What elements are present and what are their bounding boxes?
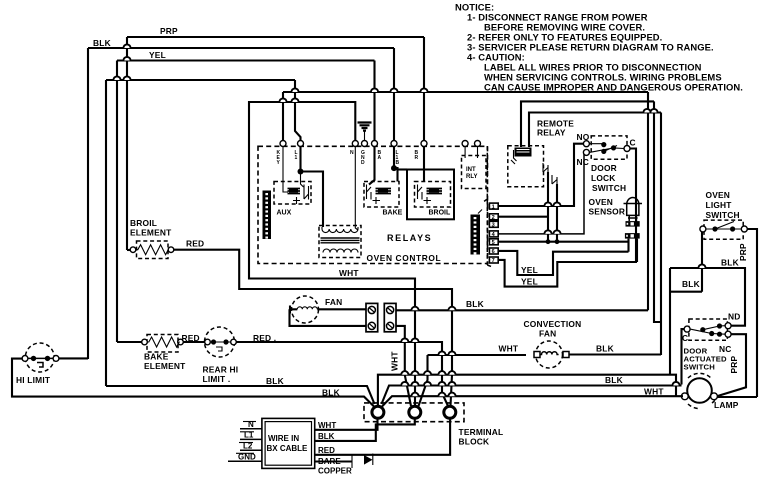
svg-text:WIRE IN: WIRE IN (268, 434, 299, 443)
wire pin6 YEL loop to sensor (498, 251, 628, 275)
svg-text:5: 5 (492, 240, 495, 246)
svg-text:WHT: WHT (644, 387, 664, 397)
svg-text:C: C (630, 138, 636, 148)
wire KEY into AUX relay (283, 146, 288, 192)
svg-text:WHT: WHT (499, 344, 519, 354)
wire N to transformer secondary (355, 147, 358, 231)
ground symbol (358, 123, 372, 141)
lamp (681, 373, 717, 408)
broil element resistor (130, 241, 174, 259)
svg-text:HI LIMIT: HI LIMIT (16, 375, 51, 385)
wire L1 to transformer primary (301, 146, 324, 227)
wire BLK top-left (88, 38, 394, 48)
wire fan WHT down to terminal 2 (396, 326, 411, 406)
wire door C to BLK line (682, 329, 685, 384)
svg-text:NC: NC (719, 344, 732, 354)
svg-text:WHT: WHT (339, 268, 359, 278)
wire PRP from light switch (747, 229, 757, 397)
wire PRP top (127, 26, 424, 37)
wire KEY down (282, 92, 284, 141)
relay REMOTE RELAY (508, 146, 557, 187)
svg-text:BAKE: BAKE (144, 352, 169, 362)
wire hi limit left to bottom WHT line (12, 359, 375, 407)
svg-text:BROIL: BROIL (429, 210, 452, 217)
svg-text:2: 2 (492, 215, 495, 221)
wire YEL corner to bake element (117, 341, 144, 343)
svg-text:BAKE: BAKE (383, 210, 403, 217)
svg-text:BLK: BLK (605, 375, 623, 385)
wire BR to BROIL relay (423, 146, 425, 182)
svg-text:YEL: YEL (521, 277, 538, 287)
node L1B junction (391, 165, 397, 171)
wire remote relay coil feed 2 (529, 113, 661, 148)
svg-text:CONVECTION: CONVECTION (524, 319, 582, 329)
svg-text:NO: NO (577, 132, 590, 142)
connector J2 right bar (471, 210, 483, 255)
wire BLK left vertical (87, 48, 89, 359)
terminal block post 3 (444, 406, 456, 418)
wire crossing hops (113, 44, 705, 396)
wire BA to bake relay switch (369, 147, 375, 185)
svg-text:WHT: WHT (390, 351, 400, 371)
svg-text:RED: RED (186, 239, 204, 249)
svg-text:RED: RED (318, 446, 335, 455)
wire WHT line continue to lamp (382, 396, 684, 407)
wire BARE COPPER ground lead (315, 454, 373, 476)
wire door lock C down (630, 149, 636, 263)
transformer T1 (319, 226, 361, 258)
node L1 junction (298, 169, 304, 175)
svg-text:6: 6 (492, 249, 495, 255)
svg-text:SWITCH: SWITCH (706, 210, 740, 220)
svg-text:COPPER: COPPER (318, 467, 352, 476)
svg-text:BLK: BLK (682, 279, 700, 289)
wire L1 input (240, 431, 262, 440)
svg-text:SWITCH: SWITCH (592, 183, 626, 193)
svg-text:YEL: YEL (521, 265, 538, 275)
svg-text:BLK: BLK (266, 376, 284, 386)
svg-text:ELEMENT: ELEMENT (144, 361, 186, 371)
wire BLK to door switch NO (670, 268, 745, 326)
svg-text:PRP: PRP (729, 355, 739, 373)
wire PRP to broil element (127, 249, 130, 251)
svg-text:7: 7 (492, 258, 495, 264)
svg-text:GND: GND (361, 150, 365, 166)
svg-text:AUX: AUX (277, 210, 292, 217)
wire BLK convection fan to 661 vertical (569, 353, 661, 355)
svg-text:RELAY: RELAY (537, 128, 566, 138)
wire KEY line right vertical to fan blk (647, 92, 649, 310)
svg-text:PRP: PRP (160, 26, 178, 36)
svg-text:OVEN CONTROL: OVEN CONTROL (367, 253, 442, 263)
svg-text:C: C (682, 333, 688, 343)
svg-text:BROIL: BROIL (130, 218, 157, 228)
wire RED rear hi limit to circle3 (236, 342, 448, 407)
rear hi limit switch (205, 327, 237, 357)
wire YEL top (117, 50, 375, 61)
svg-text:BLK: BLK (596, 344, 614, 354)
svg-text:BLK: BLK (93, 38, 111, 48)
terminal block dashed box (364, 403, 464, 422)
wire PRP to lamp right (717, 396, 757, 398)
svg-text:YEL: YEL (149, 50, 166, 60)
fan motor (290, 296, 367, 326)
wire remote relay coil feed 1 (521, 101, 654, 147)
wire bake to rear hi limit (183, 341, 206, 343)
wire GND input (228, 452, 262, 461)
wire remote contact B down (556, 184, 558, 242)
wire L1 feed (106, 79, 295, 81)
switch DOOR LOCK (583, 136, 630, 159)
connector P1 pins 1-7 (483, 146, 498, 267)
wire pin2 to remote relay contact (498, 216, 548, 218)
wire neutral N wrap around control (249, 102, 415, 406)
svg-text:RELAYS: RELAYS (387, 233, 432, 243)
wire L1B to BAKE relay (394, 146, 398, 182)
wire L1 into AUX relay (301, 172, 304, 188)
wire N input (240, 420, 262, 429)
wire RED output to post3 (315, 418, 450, 455)
wire L1 left vertical down to BLK bottom line (105, 80, 107, 386)
svg-text:BA: BA (378, 150, 382, 161)
notice text block (455, 2, 743, 93)
svg-text:OVEN: OVEN (706, 190, 731, 200)
svg-text:LIMIT .: LIMIT . (203, 374, 231, 384)
oven control dashed box (258, 146, 488, 263)
wire hi limit right to BLK vertical (59, 357, 88, 359)
svg-text:BLK: BLK (466, 299, 484, 309)
svg-text:BX CABLE: BX CABLE (267, 444, 309, 453)
wire BLK from terminal1 to door C line (382, 386, 682, 405)
terminal block post 1 (372, 406, 384, 418)
wire remote feed2 vertical to BLK lamp line and convection fan (660, 113, 662, 356)
switch DOOR ACTUATED (684, 319, 731, 340)
svg-text:DOOR: DOOR (591, 163, 617, 173)
svg-text:BLK: BLK (721, 258, 739, 268)
convection fan motor (534, 341, 569, 368)
svg-text:SWITCH: SWITCH (684, 363, 716, 372)
terminal block post 2 (409, 406, 421, 418)
connector J1 left bar (263, 191, 272, 240)
wire YEL to BA terminal (373, 61, 375, 141)
wire BLK output to post2 (315, 418, 415, 441)
switch OVEN LIGHT (700, 220, 747, 239)
fan connector blocks (366, 303, 396, 331)
wire WHT output to post1 (315, 418, 378, 430)
svg-text:BR: BR (415, 150, 419, 161)
wire pin5 to oven sensor (498, 239, 628, 244)
wire KEY line (283, 91, 648, 93)
svg-text:ND: ND (728, 312, 741, 322)
wire pin1 to door lock NO (498, 144, 583, 206)
svg-text:PRP: PRP (738, 243, 748, 261)
svg-text:RLY: RLY (466, 174, 477, 180)
wire PRP vertical to broil element (126, 37, 128, 250)
wire pin4 to door lock NC (498, 152, 584, 234)
oven sensor probe (624, 197, 643, 262)
wire pin7 YEL loop to sensor and door lock C (498, 260, 637, 287)
wire BLK terminal1 top to lamp junction (378, 375, 676, 406)
wire fan BLK to key vertical (396, 309, 648, 311)
svg-text:LAMP: LAMP (714, 400, 739, 410)
relay BAKE (364, 182, 399, 208)
wire L1 down with kink (295, 80, 301, 141)
wire door NC to lamp right (716, 334, 746, 396)
hi limit switch (22, 343, 59, 372)
terminal pin labels KEY L1 N GND BA L1B BR (277, 150, 419, 166)
wire remote feed1 vertical joining conv fan wire (654, 101, 661, 322)
svg-text:NC: NC (577, 157, 590, 167)
svg-text:RED .: RED . (253, 333, 276, 343)
wire in bx cable box (262, 418, 315, 468)
svg-text:SENSOR: SENSOR (589, 207, 626, 217)
svg-text:3: 3 (492, 223, 495, 229)
wire RED broil to terminal block (174, 250, 452, 406)
svg-text:FAN: FAN (539, 329, 556, 339)
wire PRP to BR terminal (423, 37, 425, 141)
wire YEL vertical to bake element (116, 61, 118, 343)
svg-text:LOCK: LOCK (591, 173, 616, 183)
svg-text:FAN: FAN (325, 297, 342, 307)
svg-text:L1: L1 (295, 150, 298, 161)
svg-text:TERMINAL: TERMINAL (459, 427, 504, 437)
wire remote contact A down (547, 172, 549, 242)
svg-text:OVEN: OVEN (589, 197, 614, 207)
relay AUX (274, 182, 311, 205)
svg-text:BLK: BLK (322, 388, 340, 398)
svg-text:BLOCK: BLOCK (459, 437, 490, 447)
wire BLK to L1B terminal (393, 48, 395, 141)
relay BROIL (415, 182, 451, 208)
svg-text:INT: INT (466, 167, 476, 173)
svg-text:BLK: BLK (318, 432, 335, 441)
svg-text:N: N (350, 150, 354, 156)
wire oven light switch to lamp circuit (670, 232, 702, 375)
svg-text:REAR HI: REAR HI (203, 365, 239, 375)
terminals on oven control top edge (280, 141, 481, 147)
relay BROIL outer wire box (399, 170, 455, 220)
svg-text:WHT: WHT (318, 421, 336, 430)
svg-text:ELEMENT: ELEMENT (130, 228, 172, 238)
wire L2 input (239, 441, 262, 450)
svg-text:1: 1 (492, 204, 495, 210)
bake element resistor (142, 335, 184, 353)
wire BLK line from L1 vertical into terminal 1 (106, 386, 375, 404)
svg-text:LIGHT: LIGHT (706, 200, 733, 210)
relay INT RLY (462, 146, 487, 189)
wire WHT to convection fan (419, 355, 527, 406)
